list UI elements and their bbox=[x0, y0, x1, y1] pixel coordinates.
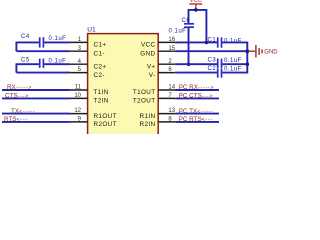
svg-text:12: 12 bbox=[74, 108, 81, 114]
capacitor C6 bbox=[184, 23, 194, 25]
IC U1 right pin numbers bbox=[168, 37, 175, 123]
svg-text:C2: C2 bbox=[208, 66, 217, 72]
IC U1 left pin names bbox=[94, 42, 117, 129]
svg-text:V+: V+ bbox=[147, 63, 156, 70]
svg-text:14: 14 bbox=[168, 85, 175, 91]
capacitor C3 bbox=[217, 59, 219, 68]
svg-text:T2IN: T2IN bbox=[94, 98, 109, 105]
capacitor C4 bbox=[39, 37, 41, 47]
op IC U1 body bbox=[88, 34, 159, 138]
capacitor C5 bbox=[39, 59, 41, 68]
wire C3 to right rail bbox=[222, 63, 247, 65]
capacitor C2 bbox=[217, 68, 219, 77]
svg-text:0.1uF: 0.1uF bbox=[224, 66, 242, 72]
svg-text:PC RX----->: PC RX-----> bbox=[179, 84, 215, 91]
svg-text:V-: V- bbox=[149, 72, 156, 79]
svg-text:GND: GND bbox=[264, 50, 278, 56]
wire PC RX net bbox=[175, 89, 219, 91]
wire C1 to right rail bbox=[222, 41, 247, 43]
svg-text:T1IN: T1IN bbox=[94, 89, 109, 96]
svg-text:VCC: VCC bbox=[141, 42, 156, 49]
svg-text:RX----->: RX-----> bbox=[7, 84, 32, 91]
svg-text:16: 16 bbox=[168, 37, 175, 43]
wire CTS net bbox=[2, 97, 70, 99]
svg-text:0.1uF: 0.1uF bbox=[49, 36, 67, 42]
svg-text:C1+: C1+ bbox=[94, 42, 107, 49]
svg-text:GND: GND bbox=[140, 50, 155, 57]
wire C2 to right rail bbox=[222, 72, 247, 74]
wire right rail bbox=[246, 42, 248, 74]
svg-text:C3: C3 bbox=[208, 57, 217, 63]
svg-text:0.1uF: 0.1uF bbox=[169, 28, 187, 34]
wire VCC row to C1 bbox=[175, 41, 217, 43]
svg-text:CTS--->: CTS---> bbox=[5, 93, 29, 100]
svg-text:VCC: VCC bbox=[189, 0, 202, 4]
svg-text:C2+: C2+ bbox=[94, 63, 107, 70]
IC U1 left pins bbox=[70, 42, 88, 122]
svg-text:C4: C4 bbox=[21, 34, 30, 40]
capacitor C5 loop wires bbox=[16, 63, 39, 65]
IC U1 right pins bbox=[158, 42, 175, 122]
node junction GND row bbox=[245, 49, 249, 53]
svg-text:TX<-----: TX<----- bbox=[11, 108, 35, 115]
svg-text:PC RTS<---: PC RTS<--- bbox=[179, 116, 213, 123]
wire V- row to C2 bbox=[175, 72, 217, 74]
IC U1 left pin numbers bbox=[74, 37, 81, 123]
node junction VCC row bbox=[205, 41, 209, 45]
svg-text:C5: C5 bbox=[21, 57, 30, 63]
wire PC TX net bbox=[175, 113, 219, 115]
svg-text:T2OUT: T2OUT bbox=[133, 98, 156, 105]
svg-text:15: 15 bbox=[168, 46, 175, 52]
svg-text:R2OUT: R2OUT bbox=[94, 121, 117, 128]
svg-text:C1-: C1- bbox=[94, 50, 105, 57]
power VCC symbol bbox=[189, 4, 202, 10]
svg-text:C2-: C2- bbox=[94, 72, 105, 79]
svg-text:0.1uF: 0.1uF bbox=[49, 59, 67, 65]
wire C6 to V+ row bbox=[188, 28, 190, 64]
wire RX net bbox=[2, 89, 70, 91]
node junction V+ bbox=[187, 62, 191, 66]
svg-text:C1: C1 bbox=[208, 38, 217, 44]
svg-text:PC CTS--->: PC CTS---> bbox=[179, 93, 213, 100]
wire V+ row to C3 bbox=[175, 63, 217, 65]
svg-text:R1OUT: R1OUT bbox=[94, 113, 117, 120]
wire PC RTS net bbox=[175, 121, 219, 123]
wire VCC top rail bbox=[189, 10, 207, 43]
wire GND row bbox=[175, 50, 247, 52]
wire RTS net bbox=[2, 121, 70, 123]
IC U1 right pin names bbox=[133, 42, 156, 129]
node junction VCC stem bbox=[194, 8, 198, 12]
wire TX net bbox=[2, 113, 70, 115]
svg-text:R1IN: R1IN bbox=[140, 113, 156, 120]
svg-text:PC TX<-----: PC TX<----- bbox=[179, 108, 214, 115]
node junction C3 row bbox=[246, 62, 250, 66]
svg-text:10: 10 bbox=[74, 93, 81, 99]
svg-text:RTS<---: RTS<--- bbox=[4, 116, 28, 123]
wire PC CTS net bbox=[175, 97, 219, 99]
svg-text:U1: U1 bbox=[87, 27, 96, 34]
svg-text:0.1uF: 0.1uF bbox=[224, 38, 242, 44]
ground symbol bbox=[248, 45, 262, 58]
svg-text:C6: C6 bbox=[182, 18, 191, 24]
capacitor C4 loop wires bbox=[16, 41, 39, 43]
svg-text:13: 13 bbox=[168, 108, 175, 114]
svg-text:11: 11 bbox=[75, 85, 82, 91]
svg-text:R2IN: R2IN bbox=[140, 121, 156, 128]
svg-text:T1OUT: T1OUT bbox=[133, 89, 156, 96]
svg-text:0.1uF: 0.1uF bbox=[224, 58, 242, 64]
capacitor C1 bbox=[217, 37, 219, 47]
